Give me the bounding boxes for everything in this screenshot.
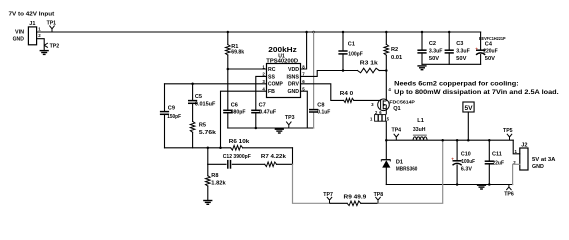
test point TP1 bbox=[47, 21, 56, 32]
wire output rail bbox=[386, 139, 513, 141]
capacitor C5 bbox=[188, 94, 216, 107]
transistor Q1 bbox=[378, 99, 390, 115]
capacitor C10 bbox=[453, 151, 476, 172]
node rail-C1 bbox=[342, 31, 345, 34]
wire C1 to ISNS bbox=[342, 54, 344, 71]
svg-text:+: + bbox=[451, 156, 454, 161]
wire 5V to rail bbox=[467, 112, 469, 140]
ground U1 bbox=[275, 129, 284, 133]
wire rail to C3 bbox=[448, 32, 450, 50]
ground output bbox=[477, 185, 486, 189]
wire R7 right bbox=[277, 163, 293, 165]
wire C4 bottom bbox=[480, 55, 482, 65]
node C10 bottom bbox=[456, 183, 459, 186]
U1 pin 1 bbox=[262, 64, 265, 69]
wire R1 to RC pin bbox=[227, 55, 229, 69]
wire C10 bottom bbox=[456, 165, 458, 185]
svg-text:COMP: COMP bbox=[268, 82, 283, 88]
svg-text:C11: C11 bbox=[492, 151, 502, 157]
svg-text:TP3: TP3 bbox=[285, 115, 295, 121]
inductor L1 core bbox=[413, 134, 427, 136]
wire DRV bbox=[301, 84, 344, 101]
capacitor C1 bbox=[338, 42, 363, 58]
wire R2 to Q1 bbox=[385, 55, 387, 99]
svg-text:TP4: TP4 bbox=[392, 128, 402, 134]
node C7 gnd bbox=[255, 127, 257, 130]
svg-text:C5: C5 bbox=[195, 94, 202, 100]
inductor L1 bbox=[413, 118, 427, 140]
node R8 top bbox=[207, 147, 210, 150]
svg-text:R2: R2 bbox=[391, 47, 398, 53]
power 5V bbox=[463, 102, 474, 112]
node switch bbox=[385, 139, 388, 142]
wire C12 line left bbox=[208, 163, 226, 165]
op-amp U1 body bbox=[267, 64, 301, 98]
svg-text:Up to 800mW dissipation at 7Vi: Up to 800mW dissipation at 7Vin and 2.5A… bbox=[394, 89, 559, 96]
svg-text:GND: GND bbox=[13, 37, 24, 43]
wire RC pin bbox=[228, 68, 267, 70]
svg-text:R5: R5 bbox=[199, 122, 206, 128]
svg-text:5.76k: 5.76k bbox=[199, 130, 217, 136]
capacitor C3 bbox=[445, 41, 471, 62]
U1 pin names right bbox=[287, 67, 300, 95]
svg-text:L1: L1 bbox=[417, 118, 424, 124]
svg-text:DRV: DRV bbox=[288, 82, 300, 88]
svg-text:FB: FB bbox=[268, 89, 275, 95]
svg-text:C7: C7 bbox=[259, 103, 266, 109]
wire Q1 drain bbox=[385, 121, 387, 140]
svg-text:C8: C8 bbox=[317, 103, 324, 109]
wire C11 top bbox=[488, 140, 490, 160]
svg-text:TP7: TP7 bbox=[323, 192, 333, 198]
svg-text:1.82k: 1.82k bbox=[211, 181, 226, 187]
J2 pin 1 bbox=[515, 149, 518, 154]
wire FB line right bbox=[243, 147, 293, 149]
node R2-R3 bbox=[385, 69, 388, 72]
resistor R1 bbox=[226, 44, 246, 55]
wire SS bbox=[256, 76, 267, 109]
ground input caps bbox=[417, 66, 426, 70]
U1 pin 4 bbox=[262, 87, 265, 92]
svg-text:5V: 5V bbox=[464, 105, 473, 112]
svg-text:TP8: TP8 bbox=[374, 192, 384, 198]
resistor R6 bbox=[229, 139, 250, 150]
test point TP7 bbox=[323, 192, 333, 203]
wire rail to R2 bbox=[385, 32, 387, 44]
J2 pin 2 bbox=[513, 160, 516, 165]
node C11 top bbox=[488, 139, 491, 142]
svg-text:TP6: TP6 bbox=[504, 191, 514, 197]
svg-text:EEVFC1H221P: EEVFC1H221P bbox=[479, 36, 506, 41]
svg-text:50V: 50V bbox=[429, 56, 439, 62]
wire rail to C2 bbox=[421, 32, 423, 50]
svg-text:R7 4.22k: R7 4.22k bbox=[261, 154, 287, 160]
wire J2 pin1 bbox=[513, 140, 520, 154]
U1 pin 6 bbox=[302, 79, 305, 84]
resistor R8 bbox=[206, 164, 227, 200]
svg-text:ISNS: ISNS bbox=[287, 74, 300, 80]
wire R3 to R2 bbox=[379, 70, 386, 72]
node rail-VDD bbox=[305, 31, 308, 34]
input label bbox=[9, 11, 55, 17]
svg-text:0.015uF: 0.015uF bbox=[195, 102, 216, 108]
node rail-C2 bbox=[421, 31, 424, 34]
resistor R4 bbox=[340, 91, 354, 102]
node sense-rail bbox=[441, 139, 444, 142]
capacitor C7 bbox=[251, 103, 277, 116]
svg-text:J1: J1 bbox=[29, 21, 35, 27]
svg-text:Needs 6cm2 copperpad for cooli: Needs 6cm2 copperpad for cooling: bbox=[394, 81, 519, 88]
svg-text:TP1: TP1 bbox=[47, 21, 56, 27]
wire R8 drop bbox=[207, 148, 209, 165]
wire divider right vert bbox=[292, 148, 294, 165]
svg-text:680pF: 680pF bbox=[231, 109, 246, 115]
node C1-ISNS bbox=[342, 69, 345, 72]
svg-text:MBRS360: MBRS360 bbox=[396, 167, 418, 173]
wire rail to R1 bbox=[227, 32, 229, 45]
capacitor C8 bbox=[309, 103, 331, 116]
wire R5 to FB line bbox=[192, 132, 194, 148]
J2 labels bbox=[532, 157, 555, 170]
node rail-C8 bbox=[312, 31, 315, 34]
svg-text:+: + bbox=[475, 47, 478, 52]
wire C8 net bbox=[313, 32, 315, 128]
Q1 pin 5 bbox=[387, 116, 390, 121]
wire RC to C6 bbox=[227, 69, 229, 110]
svg-text:C4: C4 bbox=[485, 42, 493, 48]
test point TP4 bbox=[392, 128, 402, 141]
wire U1 gnd line bbox=[228, 127, 314, 129]
node C11 bottom bbox=[488, 183, 491, 186]
capacitor C4 bbox=[476, 36, 506, 62]
C4 plus bbox=[475, 47, 478, 52]
test point TP5 bbox=[503, 128, 513, 140]
svg-text:R6 10k: R6 10k bbox=[229, 139, 250, 145]
svg-text:69.8k: 69.8k bbox=[231, 50, 245, 56]
node RC junction bbox=[227, 68, 230, 71]
node rail-R1 bbox=[227, 31, 230, 34]
wire sense return bbox=[378, 140, 443, 203]
resistor R5 bbox=[190, 121, 217, 136]
wire ISNS bbox=[301, 71, 358, 77]
resistor R2 bbox=[384, 44, 402, 61]
svg-text:50V: 50V bbox=[456, 56, 466, 62]
svg-text:TP2: TP2 bbox=[50, 44, 60, 50]
note cooling bbox=[394, 81, 559, 96]
svg-text:6.3V: 6.3V bbox=[461, 166, 472, 172]
svg-text:100pF: 100pF bbox=[348, 51, 363, 57]
svg-text:22uF: 22uF bbox=[492, 161, 504, 167]
svg-text:RC: RC bbox=[268, 67, 276, 73]
svg-text:100uF: 100uF bbox=[461, 159, 475, 165]
test point TP8 bbox=[374, 192, 384, 203]
svg-text:TP5: TP5 bbox=[503, 128, 513, 134]
wire C3 bottom bbox=[448, 53, 450, 64]
wire VDD pin bbox=[301, 32, 307, 69]
wire COMP bbox=[165, 83, 267, 85]
wire COMP to C9 bbox=[164, 84, 166, 111]
test point TP6 bbox=[504, 185, 514, 198]
svg-text:C2: C2 bbox=[429, 41, 436, 47]
svg-text:C12 3900pF: C12 3900pF bbox=[223, 154, 252, 160]
svg-text:R9 49.9: R9 49.9 bbox=[344, 194, 367, 200]
wire R4 to gate bbox=[354, 99, 381, 101]
svg-text:FDC5614P: FDC5614P bbox=[389, 100, 415, 105]
wire C9 to FB line bbox=[164, 114, 166, 148]
Q1 drain pin boxes bbox=[375, 115, 386, 122]
wire sense TP segment bbox=[330, 202, 378, 204]
svg-text:C9: C9 bbox=[168, 105, 175, 111]
wire C6 to gnd line bbox=[227, 113, 229, 128]
connector J1 bbox=[28, 21, 36, 45]
J1 pin 2 bbox=[38, 33, 41, 38]
wire C5 to R5 bbox=[192, 103, 194, 121]
ground R8 bbox=[203, 201, 212, 205]
svg-text:GND: GND bbox=[532, 164, 544, 170]
capacitor C2 bbox=[417, 41, 443, 62]
wire C12 to R7 bbox=[232, 163, 264, 165]
resistor R3 bbox=[358, 61, 380, 73]
test point TP2 bbox=[44, 43, 59, 50]
svg-text:33uH: 33uH bbox=[413, 127, 426, 133]
wire J2 pin2 bbox=[513, 164, 520, 184]
wire input caps gnd rail bbox=[422, 63, 481, 65]
capacitor C6 bbox=[223, 103, 246, 116]
wire C11 bottom bbox=[488, 164, 490, 185]
svg-text:VIN: VIN bbox=[15, 30, 24, 36]
svg-text:C6: C6 bbox=[231, 103, 238, 109]
J1 labels bbox=[13, 30, 24, 43]
svg-text:3.3uF: 3.3uF bbox=[429, 49, 443, 55]
capacitor C9 bbox=[160, 105, 182, 120]
wire C10 top bbox=[456, 140, 458, 160]
wire C7 to gnd line bbox=[255, 113, 257, 128]
wire sense drop bbox=[293, 164, 331, 203]
connector J2 bbox=[520, 142, 528, 170]
test point TP3 bbox=[285, 115, 295, 128]
U1 pin 7 bbox=[302, 72, 305, 77]
Q1 labels bbox=[389, 100, 415, 112]
node rail-C3 bbox=[448, 31, 451, 34]
node COMP-C5 bbox=[191, 83, 194, 86]
diode D1 bbox=[381, 140, 417, 184]
svg-text:R4 0: R4 0 bbox=[340, 91, 353, 97]
J1 pin 1 bbox=[38, 26, 41, 31]
ground J1 bbox=[40, 51, 49, 55]
svg-text:3.3uF: 3.3uF bbox=[456, 49, 470, 55]
wire FB bbox=[221, 91, 267, 148]
resistor R7 bbox=[261, 154, 287, 166]
Q1 pin 3 bbox=[371, 102, 374, 107]
U1 pin 3 bbox=[262, 79, 265, 84]
U1 pin 8 bbox=[302, 64, 305, 69]
Q1 pin 6 bbox=[379, 110, 382, 115]
wire C2 bottom bbox=[421, 53, 423, 64]
svg-text:C3: C3 bbox=[456, 41, 463, 47]
svg-text:VDD: VDD bbox=[288, 67, 299, 73]
U1 pin 2 bbox=[262, 72, 265, 77]
U1 pin names left bbox=[268, 67, 283, 95]
op-amp U1 heading bbox=[268, 45, 297, 60]
wire input rail bbox=[37, 31, 481, 33]
wire FB line left bbox=[165, 147, 231, 149]
node rail-R2 bbox=[385, 31, 388, 34]
wire rail to C4 bbox=[480, 32, 482, 50]
svg-text:5V at 3A: 5V at 3A bbox=[532, 157, 555, 163]
C10 plus bbox=[451, 156, 454, 161]
U1 part number bbox=[266, 59, 298, 65]
svg-text:0.01: 0.01 bbox=[391, 55, 402, 61]
Q1 pin 2 bbox=[375, 110, 378, 115]
Q1 pin 1 bbox=[370, 116, 373, 121]
svg-text:R8: R8 bbox=[211, 173, 218, 179]
capacitor C12 bbox=[223, 154, 252, 169]
svg-text:150pF: 150pF bbox=[167, 114, 181, 120]
svg-text:D1: D1 bbox=[396, 160, 403, 166]
resistor R9 bbox=[344, 194, 367, 205]
node FB-vert bbox=[219, 147, 222, 150]
U1 pin 5 bbox=[302, 87, 305, 92]
wire GND pin bbox=[301, 91, 308, 128]
capacitor C11 bbox=[485, 151, 505, 166]
wire output gnd rail bbox=[386, 184, 512, 186]
node C10 top bbox=[456, 139, 459, 142]
svg-text:Q1: Q1 bbox=[393, 106, 400, 112]
svg-text:SS: SS bbox=[268, 74, 275, 80]
svg-text:GND: GND bbox=[288, 89, 300, 95]
svg-text:J2: J2 bbox=[521, 142, 527, 148]
node 5V bbox=[467, 139, 470, 142]
svg-text:0.1uF: 0.1uF bbox=[317, 110, 331, 116]
wire rail to C1 bbox=[342, 32, 344, 50]
Q1 pin 4 bbox=[388, 87, 391, 92]
svg-text:50V: 50V bbox=[485, 56, 495, 62]
svg-text:0.47uF: 0.47uF bbox=[259, 109, 277, 115]
wire COMP to C5 bbox=[192, 84, 194, 100]
svg-text:C10: C10 bbox=[461, 151, 471, 157]
svg-text:R3 1k: R3 1k bbox=[360, 61, 379, 67]
svg-text:7V to 42V Input: 7V to 42V Input bbox=[9, 11, 55, 17]
svg-text:C1: C1 bbox=[348, 42, 355, 48]
wire J1 pin2 to ground bbox=[37, 39, 45, 51]
svg-text:220uF: 220uF bbox=[483, 49, 498, 55]
